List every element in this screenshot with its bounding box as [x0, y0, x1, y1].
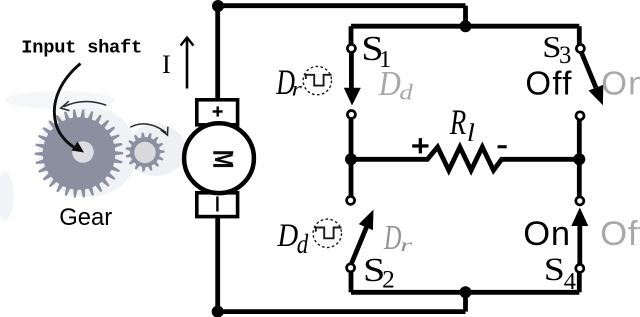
- svg-text:On: On: [601, 65, 640, 102]
- svg-text:D: D: [383, 219, 401, 257]
- svg-text:Input shaft: Input shaft: [21, 37, 142, 59]
- svg-text:4: 4: [564, 268, 576, 295]
- svg-text:D: D: [378, 65, 401, 103]
- svg-text:d: d: [297, 231, 309, 260]
- svg-text:On: On: [523, 215, 571, 253]
- svg-text:D: D: [277, 216, 299, 253]
- svg-text:Off: Off: [525, 65, 572, 102]
- svg-text:r: r: [292, 78, 303, 100]
- svg-text:R: R: [449, 103, 466, 143]
- svg-text:2: 2: [382, 266, 395, 294]
- svg-text:l: l: [467, 119, 475, 147]
- svg-text:r: r: [400, 236, 412, 255]
- svg-text:Gear: Gear: [59, 204, 112, 231]
- svg-text:S: S: [544, 250, 565, 287]
- svg-text:d: d: [399, 81, 413, 105]
- svg-text:Off: Off: [600, 215, 640, 253]
- svg-text:I: I: [162, 50, 171, 79]
